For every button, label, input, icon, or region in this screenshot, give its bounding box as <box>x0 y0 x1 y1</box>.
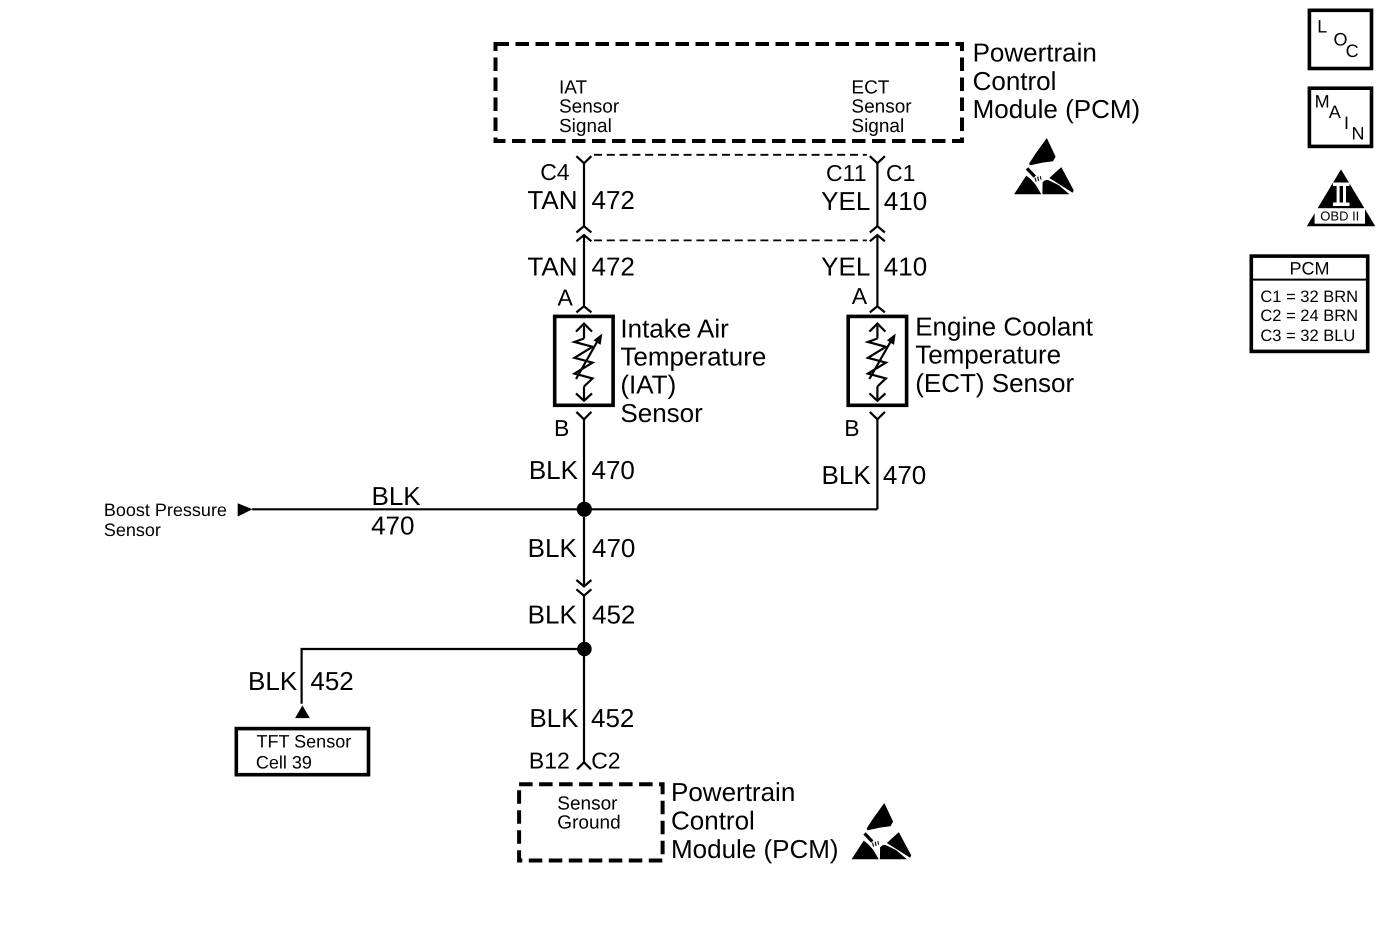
label M A I N <box>1315 91 1365 143</box>
svg-text:BLK: BLK <box>529 703 579 733</box>
label TAN 472 lower <box>527 252 634 282</box>
IAT thermistor symbol <box>575 324 603 401</box>
svg-text:BLK: BLK <box>248 666 298 696</box>
svg-text:Sensor: Sensor <box>104 520 161 540</box>
label L O C <box>1317 16 1358 61</box>
svg-text:A: A <box>558 285 574 311</box>
PCM module box (top, dashed) <box>496 44 963 141</box>
connector boundary dashed line upper <box>594 154 867 156</box>
inline connector (ECT harness) chevrons <box>870 226 885 241</box>
svg-text:I: I <box>1344 113 1349 133</box>
svg-text:472: 472 <box>592 185 635 215</box>
svg-text:Ground: Ground <box>557 813 620 834</box>
svg-text:452: 452 <box>310 666 353 696</box>
svg-text:ECT: ECT <box>851 77 889 98</box>
ESD symbol top <box>1014 138 1074 194</box>
svg-text:M: M <box>1315 91 1330 111</box>
svg-text:Module (PCM): Module (PCM) <box>671 834 839 864</box>
label Engine Coolant Temperature (ECT) Sensor <box>915 312 1094 398</box>
svg-text:Temperature: Temperature <box>915 340 1061 370</box>
svg-text:OBD II: OBD II <box>1320 209 1359 224</box>
svg-text:YEL: YEL <box>821 186 870 216</box>
label BLK / 470 over horizontal wire <box>371 481 421 541</box>
ECT sensor box <box>848 316 906 405</box>
connector C4 terminal (PCM half) <box>576 156 591 163</box>
label YEL 410 lower <box>821 252 927 282</box>
connector C11 terminal (PCM half, ECT) <box>870 156 885 163</box>
svg-text:Powertrain: Powertrain <box>671 777 795 807</box>
svg-text:C1 = 32 BRN: C1 = 32 BRN <box>1260 288 1358 306</box>
svg-text:TFT Sensor: TFT Sensor <box>257 731 352 751</box>
svg-text:B: B <box>554 415 569 441</box>
OBD II triangle symbol <box>1307 169 1376 226</box>
svg-text:C2 = 24 BRN: C2 = 24 BRN <box>1260 307 1358 325</box>
svg-text:C: C <box>1346 41 1359 61</box>
svg-text:BLK: BLK <box>822 460 872 490</box>
svg-text:Temperature: Temperature <box>620 342 766 372</box>
wire BLK 470 (ECT B down to horizontal run) <box>876 419 878 509</box>
svg-text:470: 470 <box>371 511 414 541</box>
svg-text:Engine Coolant: Engine Coolant <box>915 312 1094 342</box>
wire BLK 470 (IAT B down to junction) <box>583 419 585 509</box>
label BLK 452 (branch) <box>248 666 354 696</box>
label BLK 470 (left column) <box>529 455 635 485</box>
svg-text:BLK: BLK <box>528 533 578 563</box>
label Boost Pressure Sensor <box>104 500 227 540</box>
label Powertrain Control Module (PCM) top <box>973 38 1141 124</box>
svg-text:Module (PCM): Module (PCM) <box>973 94 1141 124</box>
svg-text:Control: Control <box>671 805 755 835</box>
svg-text:BLK: BLK <box>529 455 579 485</box>
connector boundary dashed line lower <box>594 239 867 241</box>
wire BLK 470 (junction down to splice chevrons) <box>583 517 585 586</box>
svg-text:A: A <box>1329 102 1341 122</box>
svg-text:N: N <box>1352 124 1365 144</box>
inline connector chevrons (470 to 452) <box>576 580 591 596</box>
svg-text:410: 410 <box>884 252 927 282</box>
connector terminal B12/C2 at PCM <box>577 762 591 769</box>
label Intake Air Temperature (IAT) Sensor <box>620 313 766 428</box>
svg-text:472: 472 <box>592 252 635 282</box>
TFT Sensor Cell 39 box <box>236 729 368 775</box>
svg-text:IAT: IAT <box>559 77 588 98</box>
ESD symbol bottom <box>852 803 912 859</box>
junction node (BLK 470 splice) <box>577 502 592 517</box>
connector terminal A at IAT sensor <box>576 306 591 312</box>
svg-text:Sensor: Sensor <box>620 398 703 428</box>
label Powertrain Control Module (PCM) bottom <box>671 777 839 864</box>
arrow to TFT sensor <box>295 705 310 718</box>
label Sensor Ground <box>557 794 620 834</box>
svg-text:Control: Control <box>973 66 1057 96</box>
svg-text:Sensor: Sensor <box>851 97 912 118</box>
label IAT Sensor Signal <box>559 77 620 137</box>
svg-text:Powertrain: Powertrain <box>973 38 1097 68</box>
wire YEL 410 (PCM C11 to inline connector) <box>876 163 878 226</box>
label TFT Sensor Cell 39 <box>256 731 351 772</box>
LOC reference box <box>1309 10 1371 68</box>
svg-text:452: 452 <box>591 703 634 733</box>
svg-text:452: 452 <box>592 600 635 630</box>
svg-text:Cell 39: Cell 39 <box>256 752 312 772</box>
svg-text:470: 470 <box>883 460 926 490</box>
IAT sensor box <box>555 316 613 405</box>
wire branch to TFT sensor (horizontal + vertical) <box>302 649 584 704</box>
wire BLK 452 (chevrons to junction 2) <box>583 596 585 649</box>
label YEL 410 upper <box>821 186 927 216</box>
svg-text:B12: B12 <box>529 748 570 774</box>
svg-text:C3 = 32 BLU: C3 = 32 BLU <box>1260 327 1355 345</box>
svg-text:TAN: TAN <box>527 185 577 215</box>
svg-text:C4: C4 <box>540 159 570 185</box>
connector terminal A at ECT sensor <box>870 306 885 312</box>
svg-text:Signal: Signal <box>559 116 612 137</box>
svg-text:B: B <box>844 415 859 441</box>
label BLK 452 (lower) <box>529 703 634 733</box>
arrow to Boost Pressure Sensor <box>238 503 253 516</box>
label BLK 452 (center upper) <box>528 600 636 630</box>
connector terminal B at IAT sensor <box>576 412 591 419</box>
svg-text:(ECT) Sensor: (ECT) Sensor <box>915 368 1074 398</box>
PCM connector table <box>1251 256 1367 351</box>
inline connector (IAT harness) chevrons <box>576 226 591 241</box>
wire BLK 470 (horizontal run from boost arrow to ECT wire) <box>252 508 877 510</box>
connector terminal B at ECT sensor <box>870 412 885 419</box>
label BLK 470 (center) <box>528 533 636 563</box>
svg-text:(IAT): (IAT) <box>620 370 676 400</box>
svg-text:L: L <box>1317 16 1327 36</box>
svg-text:TAN: TAN <box>527 252 577 282</box>
svg-text:Signal: Signal <box>851 116 904 137</box>
svg-text:BLK: BLK <box>528 600 578 630</box>
svg-text:Intake Air: Intake Air <box>620 313 729 343</box>
wire TAN 472 (inline connector to IAT sensor A) <box>583 235 585 306</box>
label ECT Sensor Signal <box>851 77 912 137</box>
wire BLK 452 (junction 2 down to PCM B12) <box>583 656 585 762</box>
svg-text:Sensor: Sensor <box>557 794 618 815</box>
svg-text:C11: C11 <box>826 160 867 186</box>
svg-text:YEL: YEL <box>821 252 870 282</box>
label BLK 470 (right column) <box>822 460 927 490</box>
svg-text:470: 470 <box>592 533 635 563</box>
svg-text:470: 470 <box>592 455 635 485</box>
MAIN reference box <box>1309 88 1371 146</box>
svg-text:C2: C2 <box>591 748 620 774</box>
svg-text:410: 410 <box>884 186 927 216</box>
svg-text:Boost Pressure: Boost Pressure <box>104 500 227 520</box>
PCM module box (bottom, dashed) <box>519 784 663 860</box>
svg-text:C1: C1 <box>886 160 915 186</box>
svg-text:A: A <box>852 283 868 309</box>
svg-text:BLK: BLK <box>372 481 422 511</box>
junction node 2 (BLK 452 splice) <box>577 642 592 657</box>
svg-text:PCM: PCM <box>1290 259 1330 279</box>
wire YEL 410 (inline connector to ECT sensor A) <box>876 235 878 306</box>
label TAN 472 upper <box>527 185 634 215</box>
ECT thermistor symbol <box>868 324 896 401</box>
svg-text:Sensor: Sensor <box>559 97 620 118</box>
wire TAN 472 (PCM C4 to inline connector) <box>583 163 585 226</box>
